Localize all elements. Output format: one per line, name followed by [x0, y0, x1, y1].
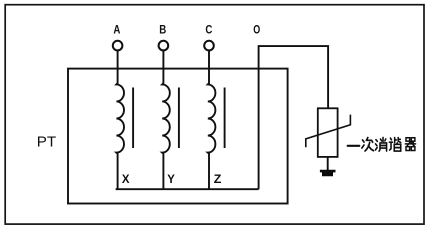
svg-text:O: O: [253, 23, 260, 37]
svg-text:Y: Y: [167, 172, 175, 186]
svg-text:A: A: [113, 23, 120, 37]
svg-text:Z: Z: [214, 172, 222, 186]
svg-text:C: C: [205, 23, 212, 37]
svg-text:B: B: [159, 23, 166, 37]
svg-text:PT: PT: [37, 134, 56, 151]
svg-text:X: X: [122, 172, 130, 186]
